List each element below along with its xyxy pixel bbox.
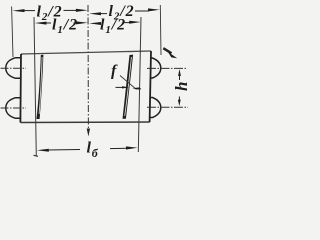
svg-text:l1/2: l1/2 <box>52 17 78 37</box>
svg-text:l2/2: l2/2 <box>37 4 63 24</box>
svg-text:l1/2: l1/2 <box>100 17 126 37</box>
svg-text:h: h <box>172 82 191 91</box>
